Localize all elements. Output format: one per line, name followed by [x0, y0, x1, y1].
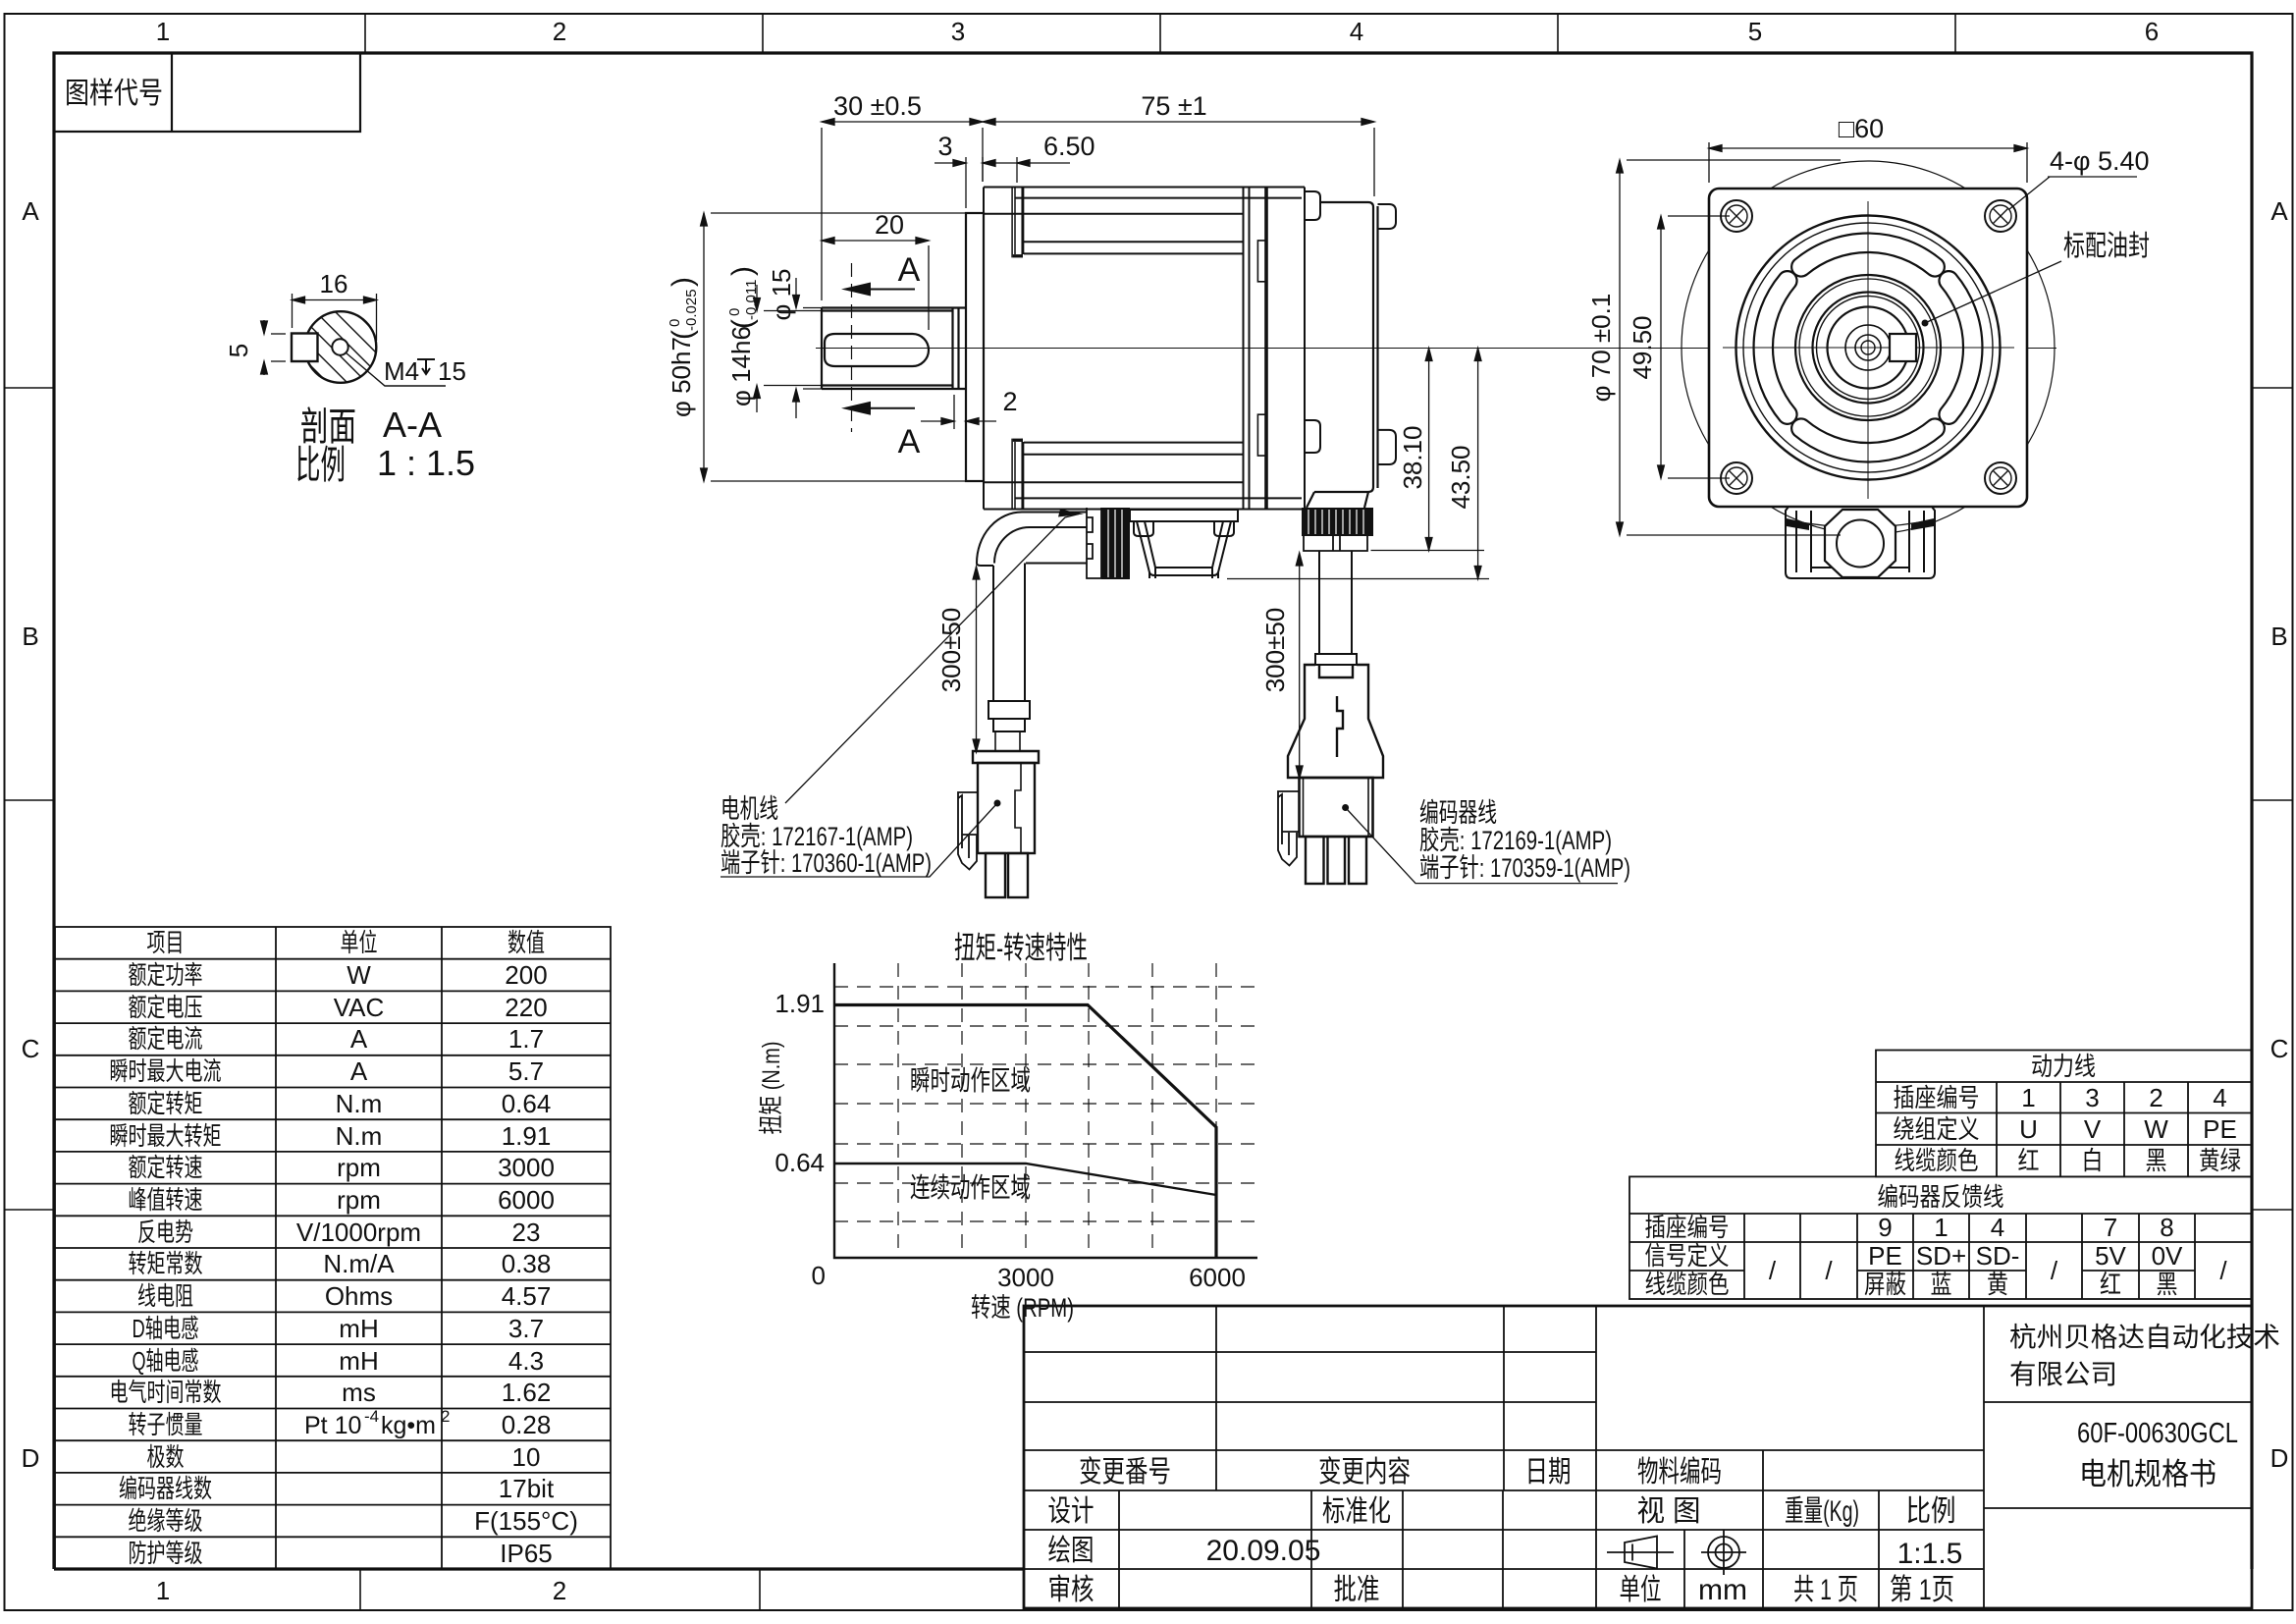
- dim phi50h7 vertical: [701, 213, 967, 481]
- svg-text:/: /: [1825, 1256, 1833, 1285]
- svg-text:rpm: rpm: [337, 1185, 381, 1215]
- encoder feedback table 编码器反馈线: [1629, 1176, 2252, 1299]
- zone tick top: [365, 14, 1955, 53]
- svg-text:6000: 6000: [498, 1185, 555, 1215]
- svg-text:C: C: [22, 1034, 40, 1063]
- svg-text:转速 (RPM): 转速 (RPM): [971, 1293, 1074, 1323]
- svg-text:200: 200: [505, 960, 547, 990]
- leader M4: [346, 352, 446, 386]
- svg-text:瞬时最大转矩: 瞬时最大转矩: [110, 1121, 222, 1151]
- svg-text:0: 0: [812, 1261, 826, 1290]
- svg-text:0.28: 0.28: [502, 1410, 552, 1439]
- M4 tapped center hole: [332, 339, 347, 354]
- svg-text:3.7: 3.7: [508, 1314, 544, 1343]
- svg-text:8: 8: [2160, 1213, 2173, 1242]
- svg-text:A: A: [2270, 196, 2288, 226]
- svg-text:黄: 黄: [1987, 1270, 2008, 1299]
- dim 2: [921, 395, 996, 429]
- dim 300+-50 motor cable: [973, 567, 980, 752]
- svg-text:0: 0: [726, 308, 743, 316]
- svg-text:数值: 数值: [507, 928, 545, 957]
- svg-text:(: (: [726, 319, 759, 329]
- svg-text:43.50: 43.50: [1446, 445, 1475, 509]
- tie bolt boss left bottom: [1012, 439, 1024, 509]
- svg-text:额定功率: 额定功率: [129, 960, 203, 990]
- svg-text:编码器反馈线: 编码器反馈线: [1878, 1182, 2004, 1212]
- encoder cable: [1315, 551, 1357, 665]
- first angle projection symbol: [1607, 1537, 1674, 1569]
- svg-text:1.62: 1.62: [502, 1378, 552, 1407]
- keyway key block front: [1890, 334, 1916, 361]
- svg-text:15: 15: [438, 356, 466, 386]
- svg-text:D轴电感: D轴电感: [133, 1314, 199, 1343]
- svg-text:动力线: 动力线: [2031, 1052, 2096, 1081]
- svg-text:红: 红: [2018, 1146, 2040, 1175]
- svg-text:转矩常数: 转矩常数: [129, 1249, 203, 1278]
- keyway key square: [292, 334, 318, 362]
- dim 75 +-1: [983, 119, 1374, 196]
- svg-text:屏蔽: 屏蔽: [1864, 1270, 1906, 1299]
- svg-text:3: 3: [951, 17, 965, 46]
- svg-text:W: W: [2144, 1114, 2168, 1144]
- svg-text:插座编号: 插座编号: [1645, 1213, 1730, 1242]
- svg-text:C: C: [2270, 1034, 2289, 1063]
- corner holes: [1721, 200, 2016, 494]
- section arrow top: [841, 283, 871, 297]
- svg-text:1.91: 1.91: [774, 989, 825, 1018]
- svg-text:蓝: 蓝: [1931, 1270, 1952, 1299]
- svg-text:Pt 10: Pt 10: [304, 1412, 361, 1439]
- zone tick right: [2252, 388, 2292, 1210]
- svg-text:φ 70 ±0.1: φ 70 ±0.1: [1586, 294, 1616, 403]
- svg-text:黑: 黑: [2157, 1270, 2178, 1299]
- keyway slot on shaft: [825, 334, 929, 366]
- svg-text:A: A: [22, 196, 39, 226]
- svg-text:5V: 5V: [2095, 1241, 2126, 1271]
- svg-text:D: D: [2270, 1443, 2289, 1473]
- svg-text:有限公司: 有限公司: [2009, 1359, 2117, 1389]
- svg-text:绕组定义: 绕组定义: [1894, 1114, 1980, 1144]
- svg-text:标配油封: 标配油封: [2063, 230, 2150, 262]
- svg-text:0: 0: [667, 319, 683, 327]
- svg-text:30 ±0.5: 30 ±0.5: [833, 91, 922, 121]
- svg-text:20.09.05: 20.09.05: [1206, 1535, 1321, 1567]
- svg-text:重量(Kg): 重量(Kg): [1785, 1495, 1859, 1528]
- dim 6.50: [983, 157, 1070, 183]
- encoder cable gland black: [1302, 508, 1373, 536]
- svg-text:瞬时最大电流: 瞬时最大电流: [110, 1056, 222, 1086]
- svg-text:胶壳: 172167-1(AMP): 胶壳: 172167-1(AMP): [721, 822, 913, 851]
- svg-text:物料编码: 物料编码: [1637, 1456, 1722, 1489]
- dim square60: [1709, 142, 2027, 183]
- svg-text:mH: mH: [339, 1314, 378, 1343]
- rear boss top: [1305, 191, 1320, 220]
- svg-text:极数: 极数: [147, 1442, 185, 1472]
- svg-text:1:1.5: 1:1.5: [1897, 1538, 1963, 1570]
- svg-text:1: 1: [156, 17, 170, 46]
- svg-text:信号定义: 信号定义: [1645, 1241, 1730, 1271]
- centerline through shaft and both views: [816, 348, 2056, 350]
- svg-text:V: V: [2084, 1114, 2102, 1144]
- svg-text:1.91: 1.91: [502, 1121, 552, 1151]
- svg-text:端子针: 170359-1(AMP): 端子针: 170359-1(AMP): [1419, 853, 1630, 883]
- svg-text:0V: 0V: [2152, 1241, 2183, 1271]
- vent slots (4 arc slots): [1754, 234, 1983, 462]
- svg-text:变更番号: 变更番号: [1079, 1456, 1171, 1489]
- svg-text:9: 9: [1878, 1213, 1892, 1242]
- svg-text:): ): [726, 266, 759, 276]
- svg-text:N.m: N.m: [336, 1089, 383, 1118]
- svg-text:mH: mH: [339, 1346, 378, 1376]
- svg-text:60F-00630GCL: 60F-00630GCL: [2077, 1418, 2238, 1449]
- svg-text:编码器线数: 编码器线数: [119, 1474, 212, 1503]
- svg-text:红: 红: [2100, 1270, 2121, 1299]
- svg-text:φ 15: φ 15: [767, 268, 796, 320]
- svg-text:电机规格书: 电机规格书: [2079, 1457, 2216, 1491]
- svg-text:N.m: N.m: [336, 1121, 383, 1151]
- svg-text:2: 2: [441, 1407, 450, 1426]
- svg-text:1: 1: [156, 1576, 170, 1605]
- svg-text:标准化: 标准化: [1322, 1495, 1391, 1528]
- power cable gland black: [1101, 508, 1130, 579]
- svg-text:额定转速: 额定转速: [129, 1153, 203, 1182]
- svg-text:M4: M4: [384, 356, 419, 386]
- horizontal centerline (within square): [1723, 347, 2014, 349]
- svg-text:0.38: 0.38: [502, 1249, 552, 1278]
- svg-text:16: 16: [320, 269, 348, 298]
- svg-text:φ 50h7: φ 50h7: [667, 337, 696, 417]
- dim 38.10: [1371, 349, 1485, 551]
- dim 5: [261, 320, 286, 375]
- svg-text:38.10: 38.10: [1398, 425, 1427, 489]
- svg-text:编码器线: 编码器线: [1419, 798, 1497, 828]
- svg-text:A: A: [898, 251, 921, 289]
- power connector cup: [1130, 510, 1238, 578]
- svg-text:额定转矩: 额定转矩: [129, 1089, 203, 1118]
- section line A-A dashed: [851, 263, 853, 432]
- svg-text:17bit: 17bit: [499, 1474, 555, 1503]
- svg-text:反电势: 反电势: [137, 1218, 193, 1247]
- dim phi15 vertical: [793, 278, 844, 418]
- svg-text:/: /: [1769, 1256, 1777, 1285]
- svg-text:B: B: [2270, 622, 2287, 651]
- svg-text:A: A: [350, 1056, 368, 1086]
- svg-text:N.m/A: N.m/A: [323, 1249, 395, 1278]
- svg-text:3: 3: [937, 132, 952, 161]
- svg-text:额定电压: 额定电压: [129, 993, 203, 1022]
- dim 16: [293, 294, 377, 341]
- svg-text:D: D: [22, 1443, 40, 1473]
- tie bolt boss left top: [1012, 188, 1024, 257]
- svg-text:□60: □60: [1839, 114, 1884, 143]
- svg-text:插座编号: 插座编号: [1894, 1083, 1980, 1112]
- svg-text:防护等级: 防护等级: [129, 1539, 203, 1568]
- svg-text:比例: 比例: [1906, 1495, 1956, 1528]
- svg-text:连续动作区域: 连续动作区域: [910, 1172, 1031, 1203]
- svg-text:剖面: 剖面: [300, 406, 356, 449]
- svg-text:(: (: [667, 330, 699, 340]
- section arrow bottom: [841, 402, 871, 415]
- svg-text:): ): [667, 277, 699, 287]
- encoder connector latch: [1278, 791, 1300, 866]
- svg-text:扭矩 (N.m): 扭矩 (N.m): [758, 1042, 785, 1135]
- rear boss lower: [1305, 420, 1320, 453]
- svg-text:线电阻: 线电阻: [137, 1281, 193, 1311]
- title block labels: [1048, 1456, 1963, 1606]
- shaft phi15 outline: [822, 308, 966, 390]
- svg-text:7: 7: [2104, 1213, 2117, 1242]
- svg-text:10: 10: [512, 1442, 541, 1472]
- svg-text:2: 2: [2149, 1083, 2163, 1112]
- svg-text:单位: 单位: [1620, 1574, 1662, 1606]
- peak torque curve: [834, 1005, 1216, 1259]
- motor cable elbow boot: [977, 513, 1087, 702]
- svg-text:A: A: [350, 1024, 368, 1054]
- dashed grid vertical: [834, 963, 1257, 1258]
- svg-text:SD-: SD-: [1976, 1241, 2020, 1271]
- svg-text:2: 2: [1002, 387, 1017, 416]
- svg-text:4: 4: [2213, 1083, 2226, 1112]
- svg-text:4: 4: [1350, 17, 1363, 46]
- svg-text:6: 6: [2145, 17, 2159, 46]
- svg-text:峰值转速: 峰值转速: [129, 1185, 203, 1215]
- svg-text:2: 2: [553, 17, 566, 46]
- svg-text:75 ±1: 75 ±1: [1141, 91, 1206, 121]
- encoder housing: [1307, 202, 1396, 508]
- svg-text:变更内容: 变更内容: [1318, 1456, 1411, 1489]
- dim 49.50: [1658, 216, 1730, 478]
- svg-text:300±50: 300±50: [936, 608, 966, 693]
- encoder connector body: [1300, 778, 1373, 837]
- svg-text:Ohms: Ohms: [325, 1281, 393, 1311]
- encoder connector strain relief + taper: [1288, 665, 1383, 778]
- svg-text:A: A: [898, 423, 921, 460]
- svg-text:线缆颜色: 线缆颜色: [1645, 1270, 1730, 1299]
- svg-text:第 1页: 第 1页: [1890, 1574, 1954, 1606]
- power connector bracket: [1087, 508, 1101, 578]
- svg-text:1 : 1.5: 1 : 1.5: [377, 443, 475, 483]
- svg-text:W: W: [347, 960, 371, 990]
- svg-text:4-φ 5.40: 4-φ 5.40: [2050, 146, 2150, 176]
- dim 43.50: [1227, 349, 1489, 579]
- target view symbol: [1701, 1530, 1746, 1575]
- svg-text:SD+: SD+: [1916, 1241, 1966, 1271]
- dim 3: [934, 157, 983, 208]
- rear nut pockets: [1257, 241, 1265, 282]
- svg-text:49.50: 49.50: [1628, 315, 1657, 379]
- svg-text:1: 1: [2021, 1083, 2035, 1112]
- drawing code box 图样代号: [54, 53, 360, 132]
- dim phi70: [1617, 160, 1841, 535]
- svg-text:审核: 审核: [1048, 1574, 1095, 1606]
- motor connector latch: [958, 792, 978, 870]
- svg-text:4.57: 4.57: [502, 1281, 552, 1311]
- svg-text:胶壳: 172169-1(AMP): 胶壳: 172169-1(AMP): [1419, 826, 1612, 855]
- rear bell: [1243, 188, 1245, 510]
- svg-text:IP65: IP65: [500, 1539, 553, 1568]
- svg-text:6000: 6000: [1189, 1263, 1246, 1292]
- svg-text:共 1 页: 共 1 页: [1793, 1574, 1858, 1606]
- svg-text:1: 1: [1934, 1213, 1948, 1242]
- svg-text:电气时间常数: 电气时间常数: [110, 1378, 222, 1407]
- axes: [834, 963, 1257, 1258]
- zone tick bottom: [360, 1569, 760, 1610]
- svg-text:23: 23: [512, 1218, 541, 1247]
- svg-text:mm: mm: [1698, 1574, 1747, 1606]
- svg-text:φ 14h6: φ 14h6: [726, 326, 756, 406]
- svg-text:6.50: 6.50: [1043, 132, 1095, 161]
- title block outline: [1024, 1306, 2252, 1608]
- svg-text:绘图: 绘图: [1048, 1535, 1095, 1567]
- dim 30 +-0.5: [822, 119, 983, 300]
- svg-text:20: 20: [875, 210, 904, 240]
- motor cable ferrule and connector: [988, 701, 1030, 751]
- svg-text:3000: 3000: [498, 1153, 555, 1182]
- svg-text:项目: 项目: [147, 928, 185, 957]
- svg-text:黄绿: 黄绿: [2199, 1146, 2241, 1175]
- svg-text:ms: ms: [342, 1378, 376, 1407]
- section A-A shaft circle: [305, 311, 377, 383]
- svg-text:-4: -4: [364, 1407, 379, 1426]
- svg-text:扭矩-转速特性: 扭矩-转速特性: [954, 931, 1088, 965]
- svg-text:kg•m: kg•m: [381, 1412, 436, 1439]
- svg-text:线缆颜色: 线缆颜色: [1895, 1146, 1979, 1175]
- body outline and axial lines: [984, 188, 1305, 510]
- svg-text:白: 白: [2082, 1146, 2104, 1175]
- svg-text:瞬时动作区域: 瞬时动作区域: [910, 1065, 1031, 1096]
- svg-text:-0.025: -0.025: [683, 289, 700, 331]
- svg-text:/: /: [2219, 1256, 2227, 1285]
- vertical centerline: [1867, 201, 1869, 499]
- svg-text:PE: PE: [1868, 1241, 1902, 1271]
- svg-text:4: 4: [1991, 1213, 2004, 1242]
- spec table grid: [55, 927, 611, 1569]
- svg-text:图样代号: 图样代号: [65, 78, 163, 110]
- dim phi14h6 vertical: [754, 285, 827, 412]
- svg-text:3000: 3000: [997, 1263, 1054, 1292]
- zone tick left: [5, 388, 55, 1210]
- svg-text:220: 220: [505, 993, 547, 1022]
- svg-text:5.7: 5.7: [508, 1056, 544, 1086]
- svg-text:0.64: 0.64: [502, 1089, 552, 1118]
- svg-text:300±50: 300±50: [1260, 608, 1290, 693]
- svg-text:/: /: [2051, 1256, 2058, 1285]
- svg-text:U: U: [2019, 1114, 2038, 1144]
- svg-text:B: B: [22, 622, 38, 651]
- svg-text:设计: 设计: [1048, 1495, 1095, 1528]
- svg-text:4.3: 4.3: [508, 1346, 544, 1376]
- motor label leader to boot: [785, 514, 1079, 804]
- svg-text:1.7: 1.7: [508, 1024, 544, 1054]
- svg-text:黑: 黑: [2146, 1146, 2167, 1175]
- boss circles: [1736, 216, 2001, 480]
- phi70 circle through holes: [1682, 161, 2055, 534]
- svg-text:5: 5: [224, 344, 253, 357]
- flange square: [1709, 189, 2027, 507]
- svg-text:rpm: rpm: [337, 1153, 381, 1182]
- svg-text:绝缘等级: 绝缘等级: [129, 1506, 203, 1536]
- svg-text:PE: PE: [2203, 1114, 2237, 1144]
- svg-text:3: 3: [2085, 1083, 2099, 1112]
- dim 300+-50 encoder cable: [1296, 553, 1303, 779]
- svg-text:批准: 批准: [1334, 1574, 1380, 1606]
- encoder gland shroud: [1304, 536, 1367, 551]
- svg-text:0.64: 0.64: [774, 1148, 825, 1177]
- svg-text:Q轴电感: Q轴电感: [133, 1346, 199, 1376]
- svg-text:额定电流: 额定电流: [129, 1024, 203, 1054]
- svg-text:转子惯量: 转子惯量: [129, 1410, 203, 1439]
- svg-text:端子针: 170360-1(AMP): 端子针: 170360-1(AMP): [721, 848, 932, 878]
- hex gland nut: [1825, 510, 1896, 577]
- svg-text:杭州贝格达自动化技术: 杭州贝格达自动化技术: [2009, 1322, 2280, 1352]
- power line table 动力线: [1876, 1051, 2252, 1177]
- spigot plate phi50: [966, 213, 984, 481]
- svg-text:A-A: A-A: [383, 405, 442, 445]
- svg-text:单位: 单位: [341, 928, 378, 957]
- dim 20 keyway: [822, 238, 929, 330]
- svg-text:VAC: VAC: [334, 993, 385, 1022]
- svg-text:2: 2: [553, 1576, 566, 1605]
- encoder connector prongs: [1306, 837, 1366, 884]
- spec table text: [110, 928, 578, 1568]
- continuous torque curve: [834, 1164, 1216, 1195]
- svg-text:日期: 日期: [1525, 1456, 1572, 1489]
- svg-text:视 图: 视 图: [1637, 1495, 1701, 1528]
- svg-text:5: 5: [1748, 17, 1762, 46]
- flange plate: [984, 188, 1305, 510]
- svg-text:F(155°C): F(155°C): [474, 1506, 578, 1536]
- svg-text:比例: 比例: [295, 444, 346, 487]
- svg-text:电机线: 电机线: [721, 794, 778, 824]
- svg-text:-0.011: -0.011: [743, 280, 760, 320]
- svg-text:V/1000rpm: V/1000rpm: [296, 1218, 421, 1247]
- bottom connector housing front: [1786, 507, 1935, 578]
